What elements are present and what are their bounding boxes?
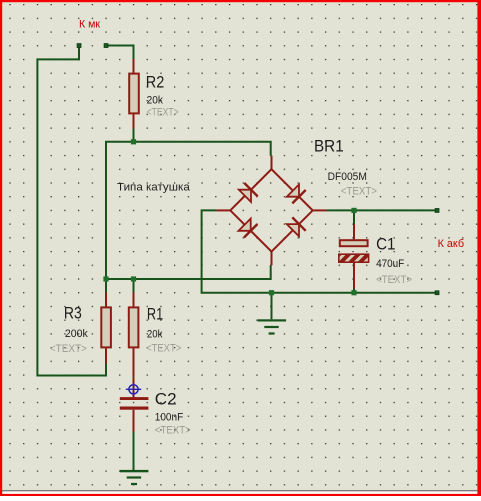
wire: bridge right corner to output terminal xyxy=(326,209,437,211)
diode bottom-right of BR1 xyxy=(287,217,306,236)
wire: terminal 2 to R2 top xyxy=(106,46,134,60)
border frame left xyxy=(0,0,2,496)
svg-text:К мк: К мк xyxy=(79,19,100,31)
origin marker on C2 pin xyxy=(126,382,141,397)
wire: node A horizontal to bridge bottom corner xyxy=(106,265,271,279)
wire: junction left then down to node A xyxy=(106,142,134,279)
capacitor C1 (polarized) xyxy=(339,224,369,289)
svg-text:20k: 20k xyxy=(147,329,163,341)
wire: R1 top stub xyxy=(133,279,135,293)
resistor R2 xyxy=(129,59,139,129)
svg-text:<TEXT>: <TEXT> xyxy=(341,186,377,198)
bridge rectifier BR1 diamond xyxy=(230,169,312,251)
svg-text:BR1: BR1 xyxy=(314,137,344,156)
diode top-right of BR1 xyxy=(287,185,306,204)
resistor R1 xyxy=(129,293,139,399)
wire: terminal K mk left, down left side, to R3 bottom xyxy=(37,46,106,376)
wire: C1 bottom stub xyxy=(353,288,355,293)
svg-text:<TEXT>: <TEXT> xyxy=(147,107,179,119)
diode top-left of BR1 xyxy=(239,183,258,202)
wire: C2 bottom to ground xyxy=(133,431,135,470)
terminal K mk 1 xyxy=(77,44,81,48)
svg-text:100nF: 100nF xyxy=(155,412,184,424)
ground at bridge bottom wire xyxy=(258,293,287,335)
terminal K akb top xyxy=(435,209,439,213)
svg-text:<TEXT>: <TEXT> xyxy=(50,343,87,355)
wire: C1 top stub xyxy=(353,210,355,224)
wire: junction right to bridge top corner xyxy=(134,142,271,156)
junction C1 top xyxy=(351,208,356,213)
svg-text:200k: 200k xyxy=(65,328,88,340)
junction ground wire xyxy=(269,290,274,295)
svg-text:<TEXT>: <TEXT> xyxy=(146,343,181,355)
border frame bottom xyxy=(0,494,481,496)
svg-text:C1: C1 xyxy=(376,235,395,254)
junction node A left xyxy=(103,276,108,281)
wire: R3 top stub xyxy=(105,279,107,293)
svg-text:К акб: К акб xyxy=(438,238,465,250)
border frame top xyxy=(0,0,481,2)
sheet bottom shadow line xyxy=(2,490,477,491)
resistor R3 xyxy=(101,293,111,364)
svg-text:Типа катушка: Типа катушка xyxy=(117,182,191,194)
junction C1 bottom xyxy=(351,290,356,295)
BR1 pin top xyxy=(271,156,273,170)
svg-text:20k: 20k xyxy=(147,95,164,107)
terminal K akb bottom xyxy=(435,291,439,295)
svg-text:R3: R3 xyxy=(64,304,82,323)
svg-text:470uF: 470uF xyxy=(376,258,404,270)
BR1 pin bottom xyxy=(271,252,273,266)
capacitor C2 xyxy=(120,397,149,431)
BR1 pin right xyxy=(313,209,327,211)
wire: R2 bottom to junction xyxy=(133,128,135,142)
BR1 pin left xyxy=(217,209,231,211)
svg-text:R2: R2 xyxy=(146,73,165,92)
svg-text:<TEXT>: <TEXT> xyxy=(376,274,412,286)
border frame right xyxy=(477,0,481,496)
svg-text:C2: C2 xyxy=(155,390,177,409)
junction node A right (R1 top) xyxy=(131,276,136,281)
junction at R2 bottom xyxy=(131,139,136,144)
sheet bottom white margin xyxy=(2,491,477,494)
diode bottom-left of BR1 xyxy=(239,219,258,238)
svg-text:<TEXT>: <TEXT> xyxy=(155,425,191,437)
svg-text:R1: R1 xyxy=(147,305,163,324)
ground below C2 xyxy=(120,470,149,485)
svg-text:DF005M: DF005M xyxy=(328,171,367,183)
wire: bridge left corner down and along bottom to terminal xyxy=(202,210,437,292)
terminal K mk 2 xyxy=(104,44,108,48)
